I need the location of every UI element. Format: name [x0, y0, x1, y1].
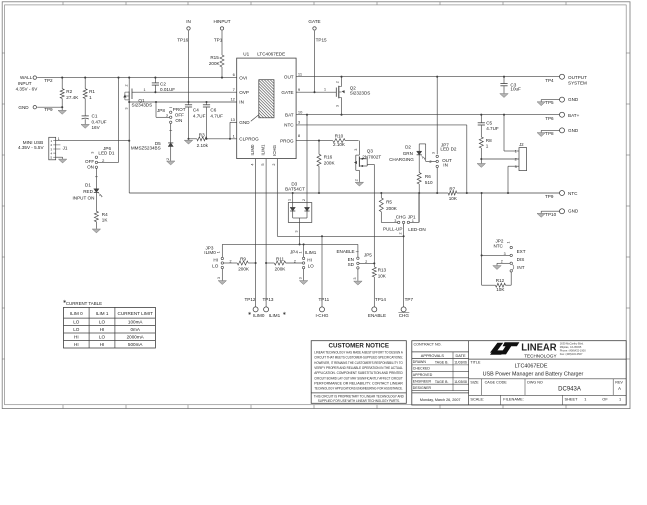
svg-text:Milpitas, CA 95035: Milpitas, CA 95035 [560, 345, 582, 349]
svg-text:200K: 200K [238, 266, 250, 271]
svg-text:FILENAME:: FILENAME: [503, 397, 524, 402]
svg-text:TP1: TP1 [214, 38, 223, 43]
svg-text:3: 3 [431, 152, 435, 154]
svg-text:27.4K: 27.4K [66, 95, 79, 100]
svg-text:GATE: GATE [308, 19, 320, 24]
svg-text:ILIM0: ILIM0 [253, 313, 265, 318]
svg-text:NTC: NTC [284, 123, 294, 128]
svg-text:1: 1 [486, 144, 489, 149]
svg-text:C2: C2 [160, 81, 166, 86]
svg-text:TP11: TP11 [319, 297, 330, 302]
svg-text:2000mA: 2000mA [127, 335, 145, 340]
svg-text:GND: GND [568, 209, 579, 214]
svg-text:2N7002T: 2N7002T [362, 154, 381, 159]
svg-text:0.01UF: 0.01UF [160, 87, 175, 92]
svg-text:REV: REV [615, 381, 623, 385]
svg-text:16V: 16V [92, 125, 101, 130]
svg-text:1: 1 [288, 199, 292, 201]
svg-text:TP9: TP9 [545, 194, 554, 199]
svg-text:JP8: JP8 [157, 108, 165, 113]
svg-text:CIRCUIT THAT MEETS CUSTOMER-: CIRCUIT THAT MEETS CUSTOMER-SUPPLIED SPE… [314, 356, 403, 360]
svg-text:R13: R13 [378, 268, 387, 273]
svg-text:2: 2 [166, 114, 169, 119]
svg-text:4.7UF: 4.7UF [193, 113, 206, 118]
svg-text:VERIFY PROPER AND RELIABLE OP: VERIFY PROPER AND RELIABLE OPERATION IN … [314, 366, 403, 370]
svg-text:2: 2 [166, 158, 170, 160]
svg-text:4.7UF: 4.7UF [486, 126, 499, 131]
svg-text:INPUT: INPUT [18, 81, 32, 86]
svg-text:200K: 200K [386, 206, 398, 211]
svg-text:BAT54CT: BAT54CT [285, 186, 305, 191]
svg-text:HI: HI [74, 342, 79, 347]
svg-text:R7: R7 [449, 186, 455, 191]
svg-text:12: 12 [230, 97, 235, 102]
svg-text:ILIM0: ILIM0 [204, 250, 216, 255]
svg-text:2: 2 [398, 233, 402, 235]
svg-text:LO: LO [73, 327, 80, 332]
svg-text:1: 1 [412, 219, 414, 223]
svg-text:3: 3 [299, 277, 303, 279]
svg-text:DWG NO: DWG NO [527, 381, 543, 385]
svg-text:SIZE: SIZE [470, 381, 479, 385]
svg-text:LO: LO [73, 320, 80, 325]
svg-text:3: 3 [295, 231, 299, 233]
svg-text:11/03/08: 11/03/08 [454, 380, 467, 384]
svg-text:WALL: WALL [20, 75, 33, 80]
svg-text:ILIM0: ILIM0 [250, 144, 255, 156]
svg-text:HI: HI [74, 335, 79, 340]
svg-text:3: 3 [515, 165, 517, 169]
svg-text:ENGINEER: ENGINEER [413, 379, 432, 383]
svg-text:R2: R2 [66, 89, 72, 94]
svg-text:ON: ON [175, 118, 182, 123]
svg-text:500mA: 500mA [128, 342, 143, 347]
svg-text:GND: GND [18, 105, 29, 110]
svg-text:IN: IN [186, 19, 191, 24]
svg-text:ILIM 0: ILIM 0 [70, 311, 83, 316]
svg-text:OVI: OVI [239, 75, 247, 80]
svg-text:1: 1 [515, 150, 517, 154]
svg-text:INT: INT [517, 265, 525, 270]
svg-text:TP13: TP13 [263, 297, 274, 302]
svg-text:EXT: EXT [517, 249, 526, 254]
svg-text:200K: 200K [324, 161, 336, 166]
svg-text:TP12: TP12 [245, 297, 256, 302]
svg-text:LINEAR: LINEAR [521, 342, 557, 353]
svg-text:Monday, March 26, 2007: Monday, March 26, 2007 [420, 398, 461, 402]
svg-text:I-CHG: I-CHG [315, 313, 328, 318]
svg-text:C5: C5 [486, 121, 492, 126]
svg-text:THIS CIRCUIT IS PROPRIETARY: THIS CIRCUIT IS PROPRIETARY TO LINEAR TE… [314, 394, 404, 398]
svg-text:CHARGING: CHARGING [389, 157, 414, 162]
svg-text:TP8: TP8 [545, 131, 554, 136]
svg-text:R6: R6 [425, 174, 431, 179]
svg-text:DIS: DIS [517, 257, 525, 262]
svg-text:3: 3 [353, 278, 357, 280]
svg-text:R10: R10 [335, 134, 344, 139]
svg-text:TECHNOLOGY: TECHNOLOGY [524, 353, 557, 358]
svg-text:R8: R8 [486, 138, 492, 143]
svg-text:LINEAR TECHNOLOGY HAS MADE A: LINEAR TECHNOLOGY HAS MADE A BEST EFFORT… [314, 350, 403, 354]
svg-text:ENABLE: ENABLE [368, 313, 386, 318]
svg-text:SCALE:: SCALE: [470, 397, 484, 402]
svg-text:D1: D1 [85, 183, 91, 188]
svg-text:C1: C1 [92, 114, 98, 119]
svg-text:1630 McCarthy Blvd.: 1630 McCarthy Blvd. [560, 342, 584, 346]
svg-text:CAGE CODE: CAGE CODE [485, 381, 508, 385]
svg-text:TITLE: TITLE [470, 360, 481, 364]
svg-text:ICHG: ICHG [272, 144, 277, 156]
svg-text:3: 3 [504, 252, 506, 256]
svg-text:200K: 200K [275, 266, 287, 271]
svg-text:R9: R9 [240, 256, 246, 261]
svg-text:SYSTEM: SYSTEM [568, 81, 587, 86]
svg-text:Fax: (408)434-0507: Fax: (408)434-0507 [560, 352, 583, 356]
svg-text:LO: LO [99, 320, 106, 325]
svg-text:MMSZ5234BS: MMSZ5234BS [131, 145, 161, 150]
svg-text:10K: 10K [378, 273, 387, 278]
svg-text:TP10: TP10 [545, 212, 556, 217]
svg-text:JP4: JP4 [290, 249, 298, 254]
svg-text:SHEET: SHEET [565, 397, 579, 402]
svg-text:HOWEVER, IT REMAINS THE CUSTO: HOWEVER, IT REMAINS THE CUSTOMER'S RESPO… [314, 361, 403, 365]
svg-text:APPROVED: APPROVED [413, 373, 433, 377]
svg-text:APPROVALS: APPROVALS [421, 353, 445, 358]
svg-text:HI: HI [307, 258, 312, 263]
svg-text:Phone: (408)432-1900: Phone: (408)432-1900 [560, 349, 587, 353]
svg-text:ON: ON [87, 164, 94, 169]
svg-text:CHG: CHG [399, 313, 410, 318]
svg-text:∗: ∗ [248, 311, 252, 317]
svg-text:RED: RED [83, 189, 93, 194]
svg-text:TP14: TP14 [375, 297, 386, 302]
svg-text:C6: C6 [210, 108, 216, 113]
svg-text:LTC4067EDE: LTC4067EDE [257, 52, 285, 57]
svg-text:SD: SD [348, 262, 355, 267]
svg-text:TP16: TP16 [177, 38, 188, 43]
svg-text:CHG: CHG [396, 214, 407, 219]
svg-text:1: 1 [506, 242, 510, 244]
svg-text:U1: U1 [243, 52, 249, 57]
svg-text:CURRENT TABLE: CURRENT TABLE [66, 301, 102, 306]
svg-text:LED D1: LED D1 [98, 150, 115, 155]
svg-text:1: 1 [619, 396, 621, 401]
svg-text:D2: D2 [405, 145, 411, 150]
svg-text:GND: GND [568, 97, 579, 102]
svg-text:3: 3 [394, 219, 396, 223]
svg-text:2: 2 [515, 158, 517, 162]
svg-text:1: 1 [144, 88, 146, 92]
svg-text:ILIM1: ILIM1 [269, 313, 281, 318]
svg-text:10K: 10K [449, 196, 458, 201]
svg-text:ILIM1: ILIM1 [261, 144, 266, 156]
svg-text:3: 3 [336, 105, 340, 107]
svg-text:2: 2 [365, 260, 367, 264]
svg-text:LTC4067EDE: LTC4067EDE [515, 364, 548, 370]
svg-text:TP5: TP5 [545, 100, 554, 105]
svg-text:2: 2 [272, 163, 276, 165]
svg-text:3: 3 [217, 277, 221, 279]
svg-text:ILIM 1: ILIM 1 [96, 311, 109, 316]
svg-text:10uF: 10uF [510, 87, 521, 92]
svg-text:R1: R1 [89, 89, 95, 94]
svg-text:HI: HI [100, 342, 105, 347]
svg-text:10K: 10K [496, 287, 505, 292]
svg-text:2: 2 [302, 199, 306, 201]
svg-text:3: 3 [91, 152, 95, 154]
svg-text:R16: R16 [324, 155, 333, 160]
svg-text:1K: 1K [102, 218, 109, 223]
svg-text:R12: R12 [496, 278, 505, 283]
svg-text:J1: J1 [63, 145, 68, 150]
svg-text:GND: GND [239, 120, 250, 125]
svg-text:USB Power Manager and Battery: USB Power Manager and Battery Charger [483, 372, 584, 378]
svg-text:1: 1 [298, 252, 302, 254]
svg-text:TAGE B.: TAGE B. [435, 380, 449, 384]
svg-text:IN: IN [443, 162, 448, 167]
svg-text:APPLICATION. COMPONENT SUBST: APPLICATION. COMPONENT SUBSTITUTION AND … [314, 371, 403, 375]
svg-text:2: 2 [336, 81, 340, 83]
svg-text:DESIGNER: DESIGNER [413, 386, 432, 390]
svg-text:4.7UF: 4.7UF [210, 113, 223, 118]
svg-text:TP7: TP7 [405, 297, 414, 302]
svg-text:4.35V - 6V: 4.35V - 6V [16, 86, 39, 91]
svg-text:BAT: BAT [285, 112, 294, 117]
svg-text:TP15: TP15 [316, 38, 327, 43]
svg-text:OUTPUT: OUTPUT [568, 75, 587, 80]
svg-text:LED-ON: LED-ON [408, 227, 425, 232]
svg-text:TECHNOLOGY APPLICATIONS ENGI: TECHNOLOGY APPLICATIONS ENGINEERING FOR … [314, 387, 403, 391]
svg-text:GND: GND [568, 128, 579, 133]
svg-text:1: 1 [89, 95, 92, 100]
svg-text:ILIM1: ILIM1 [305, 250, 317, 255]
svg-text:LO: LO [99, 335, 106, 340]
svg-text:OUT: OUT [284, 74, 294, 79]
svg-text:OF: OF [602, 397, 608, 402]
svg-text:J2: J2 [519, 142, 524, 147]
svg-text:200K: 200K [209, 61, 221, 66]
svg-text:PULL-UP: PULL-UP [383, 226, 402, 231]
svg-text:CLPROG: CLPROG [239, 137, 259, 142]
svg-text:2: 2 [501, 259, 503, 263]
svg-text:Si2323DS: Si2323DS [350, 90, 371, 95]
svg-text:TAGE B.: TAGE B. [435, 361, 449, 365]
svg-text:510: 510 [425, 180, 433, 185]
svg-text:2.10K: 2.10K [333, 142, 346, 147]
svg-text:JP5: JP5 [364, 252, 372, 257]
svg-text:CONTRACT NO.: CONTRACT NO. [414, 343, 442, 347]
svg-text:4: 4 [250, 163, 254, 165]
svg-text:C4: C4 [193, 108, 199, 113]
svg-text:CUSTOMER NOTICE: CUSTOMER NOTICE [329, 344, 390, 350]
svg-text:Si2343DS: Si2343DS [132, 103, 153, 108]
svg-text:IN: IN [239, 100, 244, 105]
svg-text:R5: R5 [386, 199, 392, 204]
svg-text:1: 1 [58, 137, 60, 141]
svg-text:100mA: 100mA [128, 320, 143, 325]
svg-text:R3: R3 [199, 132, 205, 137]
svg-text:4.35V - 5.5V: 4.35V - 5.5V [18, 145, 44, 150]
svg-text:1: 1 [584, 397, 586, 402]
svg-text:LO: LO [212, 264, 219, 269]
svg-text:OFF: OFF [175, 113, 184, 118]
svg-text:CURRENT LIMIT: CURRENT LIMIT [118, 311, 154, 316]
svg-text:0mA: 0mA [130, 327, 140, 332]
svg-text:GATE: GATE [281, 90, 293, 95]
svg-text:Q3: Q3 [367, 149, 374, 154]
svg-text:OVP: OVP [239, 90, 249, 95]
svg-text:INPUT ON: INPUT ON [73, 195, 95, 200]
svg-text:0.47UF: 0.47UF [92, 119, 107, 124]
svg-text:LED D2: LED D2 [440, 147, 457, 152]
svg-text:A: A [618, 386, 621, 391]
svg-text:2: 2 [294, 260, 296, 264]
svg-text:TP6: TP6 [545, 116, 554, 121]
svg-text:13: 13 [230, 117, 235, 122]
svg-text:GRN: GRN [403, 151, 413, 156]
svg-text:1: 1 [217, 251, 221, 253]
svg-text:11/03/06: 11/03/06 [454, 360, 467, 364]
svg-text:DRAWN: DRAWN [413, 360, 427, 364]
svg-text:2: 2 [124, 85, 128, 87]
svg-text:∗: ∗ [282, 311, 286, 317]
svg-text:NTC: NTC [568, 191, 578, 196]
svg-text:DC943A: DC943A [558, 386, 581, 392]
svg-text:PROT: PROT [173, 107, 186, 112]
svg-text:5: 5 [261, 163, 265, 165]
svg-text:LO: LO [308, 264, 315, 269]
svg-text:3: 3 [354, 149, 358, 151]
svg-text:BAT+: BAT+ [568, 113, 580, 118]
svg-text:PERFORMANCE OR RELIABILITY.: PERFORMANCE OR RELIABILITY. CONTACT LINE… [314, 381, 403, 385]
svg-text:CHECKED: CHECKED [413, 367, 431, 371]
svg-text:3: 3 [124, 108, 128, 110]
svg-text:ENABLE: ENABLE [336, 249, 354, 254]
svg-text:SUPPLIED FOR USE WITH LINEAR: SUPPLIED FOR USE WITH LINEAR TECHNOLOGY … [318, 399, 400, 403]
svg-text:CIRCUIT BOARD LAY OUT MAY S: CIRCUIT BOARD LAY OUT MAY SIGNIFICANTLY … [314, 376, 403, 380]
svg-text:2.10k: 2.10k [197, 143, 209, 148]
svg-text:DATE: DATE [455, 353, 465, 358]
svg-text:R11: R11 [276, 256, 285, 261]
svg-text:R15: R15 [210, 55, 219, 60]
svg-text:1: 1 [324, 88, 326, 92]
svg-text:PROG: PROG [280, 138, 294, 143]
svg-text:HINPUT: HINPUT [213, 19, 230, 24]
svg-text:TP9: TP9 [44, 107, 53, 112]
svg-text:2: 2 [354, 179, 358, 181]
svg-text:TP4: TP4 [545, 78, 554, 83]
svg-text:2: 2 [230, 260, 232, 264]
svg-text:R4: R4 [102, 212, 108, 217]
svg-text:10: 10 [298, 109, 303, 114]
svg-text:TP2: TP2 [44, 78, 53, 83]
svg-text:NTC: NTC [493, 244, 503, 249]
svg-text:HI: HI [100, 327, 105, 332]
svg-text:HI: HI [213, 258, 218, 263]
